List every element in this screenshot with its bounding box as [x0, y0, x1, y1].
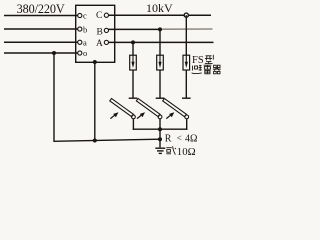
- wire HV phase A: [109, 41, 214, 43]
- wire chain1 circle to arrester bus: [132, 119, 134, 130]
- junction phase A arrester tap: [131, 40, 135, 44]
- wire HV phase C: [109, 14, 212, 16]
- svg-text:C: C: [96, 11, 102, 21]
- wire LV neutral o: [4, 52, 78, 54]
- wire HV phase B faint segment: [161, 28, 213, 30]
- wire chain3 arrester F3 to gap electrode: [185, 70, 187, 98]
- svg-text:10kV: 10kV: [146, 1, 173, 15]
- terminal circle b: [78, 27, 82, 31]
- terminal circle o: [78, 51, 82, 55]
- tubular arrester tube chain2: [136, 98, 160, 116]
- tubular arrester tube chain1: [110, 98, 134, 116]
- junction neutral o to earthing conductor: [52, 51, 56, 55]
- terminal circle C: [104, 13, 108, 17]
- terminal circle B: [104, 28, 108, 32]
- junction phase C arrester tap: [184, 13, 188, 17]
- earthing bus from neutral: [54, 53, 160, 141]
- arrester F2 body (FS type): [157, 55, 164, 70]
- glyph 避: [192, 65, 202, 73]
- discharge arrow chain2: [137, 112, 145, 118]
- svg-text:10Ω: 10Ω: [177, 146, 196, 158]
- svg-text:<: <: [177, 133, 182, 143]
- wire HV phase B: [109, 28, 162, 30]
- wire LV phase c: [4, 15, 78, 17]
- label FS 型: [192, 55, 213, 66]
- arrester common bus: [133, 128, 188, 130]
- gap electrode bar chain3: [182, 97, 191, 99]
- glyph 器: [213, 65, 221, 74]
- wire chain1 arrester F1 to gap electrode: [132, 70, 134, 98]
- svg-text:A: A: [96, 39, 103, 49]
- svg-text:o: o: [83, 48, 87, 58]
- wire LV phase b: [4, 28, 78, 30]
- tubular arrester tube chain3: [163, 98, 187, 116]
- transformer case earthing conductor: [94, 62, 96, 141]
- svg-text:380/220V: 380/220V: [17, 2, 65, 16]
- gap electrode circle chain1: [132, 115, 136, 119]
- discharge arrow chain3: [166, 112, 174, 118]
- junction phase B arrester tap: [158, 27, 162, 31]
- gap electrode circle chain3: [185, 115, 189, 119]
- terminal circle A: [104, 40, 108, 44]
- junction arrester bus to ground conductor: [158, 127, 162, 131]
- svg-text:4Ω: 4Ω: [185, 133, 197, 144]
- wire chain2 circle to arrester bus and ground: [159, 119, 161, 148]
- junction transformer case on box bottom: [93, 60, 97, 64]
- wire chain3 circle to arrester bus: [186, 119, 188, 130]
- svg-text:b: b: [83, 25, 87, 35]
- earth/ground symbol: [155, 148, 165, 153]
- wire LV phase a: [4, 41, 78, 43]
- junction transformer case to earthing bus: [93, 139, 97, 143]
- arrester F3 body (FS type): [183, 55, 190, 70]
- arrester F1 body (FS type): [130, 55, 137, 70]
- gap electrode circle chain2: [158, 115, 162, 119]
- terminal circle a: [78, 40, 82, 44]
- glyph 或: [166, 146, 176, 154]
- svg-text:B: B: [97, 28, 103, 38]
- glyph 雷: [204, 65, 212, 74]
- gap electrode bar chain2: [156, 97, 165, 99]
- wire chain2 arrester F2 to gap electrode: [159, 70, 161, 98]
- svg-text:c: c: [83, 11, 87, 21]
- svg-text:FS: FS: [192, 55, 204, 66]
- wire chain3 phase C to arrester F3: [185, 15, 187, 55]
- svg-text:a: a: [83, 38, 87, 48]
- label 避雷器: [192, 65, 221, 74]
- discharge arrow chain1: [110, 112, 118, 118]
- glyph 型: [205, 55, 214, 64]
- svg-text:R: R: [165, 133, 172, 144]
- wire chain1 phase A to arrester F1: [132, 42, 134, 55]
- transformer T1 body: [76, 5, 115, 62]
- gap electrode bar chain1: [129, 97, 138, 99]
- junction earthing bus to ground conductor: [158, 137, 162, 141]
- label 或 10 ohm: [166, 146, 195, 158]
- terminal circle c: [78, 13, 82, 17]
- wire chain2 phase B to arrester F2: [159, 29, 161, 55]
